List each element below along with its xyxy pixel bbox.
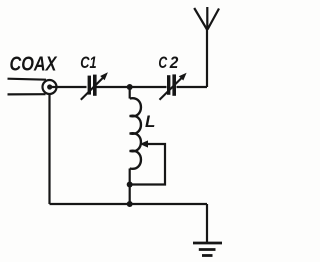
capacitor C2 bbox=[160, 73, 187, 100]
node ground bus junction bbox=[127, 201, 133, 207]
inductor L bbox=[130, 98, 141, 169]
wire L bottom to ground bus bbox=[129, 169, 131, 205]
svg-text:2: 2 bbox=[169, 54, 179, 72]
ground bbox=[193, 243, 222, 256]
wire to ground bbox=[206, 204, 208, 242]
node junction top bbox=[127, 84, 133, 90]
coax connector J1 bbox=[43, 80, 57, 94]
wire antenna lead bbox=[206, 29, 208, 88]
wire C1 to junction to C2 bbox=[97, 86, 167, 88]
node L bottom tap join bbox=[127, 182, 133, 188]
wire junction down to L bbox=[129, 87, 131, 99]
tap arrow of L bbox=[140, 140, 148, 147]
wire coax center to C1 bbox=[52, 86, 87, 88]
svg-text:L: L bbox=[145, 112, 155, 131]
svg-text:C1: C1 bbox=[80, 54, 96, 72]
wire coax feed top conductor bbox=[8, 79, 47, 80]
wire ground bus bottom bbox=[50, 203, 208, 205]
wire C2 to antenna corner bbox=[177, 86, 208, 88]
wire tap loop right side bbox=[130, 144, 165, 185]
antenna bbox=[194, 7, 219, 30]
svg-text:COAX: COAX bbox=[10, 53, 58, 75]
wire coax shield down bbox=[48, 95, 50, 205]
svg-text:C: C bbox=[158, 54, 168, 72]
wire coax feed bottom conductor bbox=[8, 93, 46, 95]
capacitor C1 bbox=[81, 72, 108, 100]
